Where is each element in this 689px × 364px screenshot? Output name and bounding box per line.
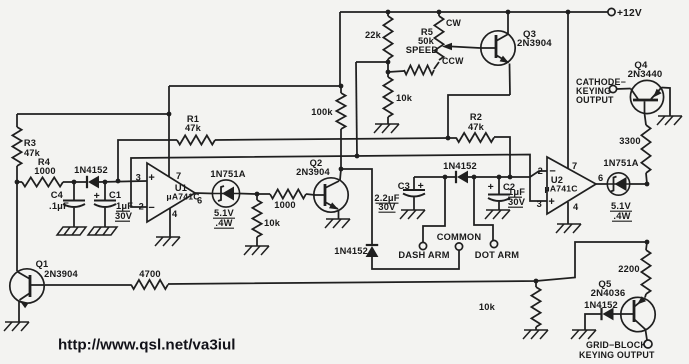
svg-text:1N4152: 1N4152 — [443, 161, 477, 171]
svg-text:4: 4 — [573, 202, 579, 212]
arrow Q1 emitter — [20, 301, 29, 309]
svg-text:μA741C: μA741C — [544, 184, 577, 194]
svg-text:22k: 22k — [365, 30, 382, 40]
svg-text:2N3904: 2N3904 — [296, 167, 330, 177]
wire 10k-v top lead — [387, 72, 389, 77]
wire C2 bottom lead — [498, 202, 500, 210]
wire R2 right lead — [494, 137, 510, 177]
svg-text:10k: 10k — [264, 218, 281, 228]
wire Q3 emitter path — [509, 64, 512, 96]
resistor R2 — [456, 133, 494, 142]
svg-text:.4W: .4W — [613, 211, 630, 221]
capacitor C3 — [403, 190, 425, 197]
wire drop to feedback — [356, 62, 357, 156]
capacitor C4 — [63, 201, 85, 208]
wire 22k top lead — [387, 12, 389, 16]
wire dot-arm bracket — [474, 177, 493, 241]
arrow R5 wiper — [442, 43, 452, 50]
transistor Q3 2N3904 body — [481, 31, 515, 65]
svg-text:C4: C4 — [51, 190, 64, 200]
wire +12V rail left drop to 100k — [339, 12, 341, 86]
svg-text:+12V: +12V — [617, 8, 642, 19]
resistor 2200 — [641, 250, 650, 294]
wire Q5 emitter inside — [634, 298, 645, 307]
svg-text:CW: CW — [446, 18, 462, 28]
wire Q1 collector inside — [17, 272, 30, 280]
diode D3 1N4152 — [456, 171, 468, 184]
svg-text:Q1: Q1 — [36, 259, 49, 269]
svg-text:DASH ARM: DASH ARM — [398, 250, 449, 260]
svg-text:−: − — [148, 202, 155, 214]
svg-text:30V: 30V — [378, 202, 396, 212]
wire Q2 collector to D4 — [341, 169, 372, 244]
resistor 22k — [383, 16, 392, 59]
wire 22k to 10k node — [387, 62, 389, 72]
svg-text:6: 6 — [197, 196, 202, 206]
wire diode row right — [468, 171, 547, 177]
wire zener2 to node — [630, 183, 647, 185]
arrow Q3 emitter — [500, 56, 509, 63]
wire Q5 collector out — [646, 330, 648, 340]
ground C1 — [88, 227, 117, 235]
wire R2 left lead — [448, 137, 456, 139]
svg-text:KEYING OUTPUT: KEYING OUTPUT — [579, 350, 655, 360]
node 100k top — [339, 84, 344, 89]
node C4 junction — [72, 180, 77, 185]
wire Q3 emitter to R2 node — [448, 95, 510, 138]
wire 2200 bottom lead — [645, 294, 646, 298]
transistor Q4 base bar — [633, 99, 658, 102]
wire Q4 collector inside — [644, 101, 646, 113]
node C2 junction — [497, 175, 502, 180]
svg-text:R2: R2 — [470, 112, 482, 122]
svg-text:2: 2 — [538, 166, 543, 176]
svg-text:2N3440: 2N3440 — [628, 69, 663, 80]
wire C2 top lead — [498, 177, 500, 194]
node U2 pin7 rail — [566, 10, 571, 15]
wire +12V top rail — [340, 11, 608, 13]
wire R1 left corner — [118, 140, 177, 181]
svg-text:+: + — [488, 181, 494, 193]
wire 100k bottom lead — [340, 129, 342, 169]
wire Q4 emitter to ground — [662, 88, 671, 117]
ground 10k-a — [244, 246, 269, 255]
wire Q4 base inside — [631, 89, 638, 100]
wire U1 pin7 riser — [168, 86, 170, 177]
node 22k top — [386, 10, 391, 15]
wire common drop — [372, 250, 459, 269]
ground 10k-v — [374, 124, 399, 133]
resistor R3 — [12, 127, 21, 166]
wire 22k bottom — [387, 59, 389, 62]
node 22k bottom — [386, 60, 391, 65]
wire Q4 collector down — [645, 114, 647, 126]
svg-text:30V: 30V — [508, 197, 526, 207]
transistor Q2 2N3904 body — [314, 178, 348, 212]
node C1 junction — [103, 180, 108, 185]
ground U1 pin4 — [155, 237, 180, 246]
ground 10k-c — [523, 330, 548, 339]
wire R3 lead top — [16, 114, 18, 127]
node R1/R2/Q3 — [446, 136, 451, 141]
zener D5 1N751A — [607, 173, 629, 195]
ground Q4 — [657, 116, 682, 125]
wire Q1 collector riser — [16, 182, 18, 271]
wire Q2 collector up — [340, 169, 341, 180]
wire C3 top lead — [413, 177, 415, 190]
svg-text:+: + — [94, 190, 100, 202]
ground U2 pin4 — [556, 224, 581, 233]
wire bottom rail long — [168, 242, 647, 284]
resistor 4700 — [131, 280, 168, 289]
transistor Q5 base bar — [633, 300, 636, 322]
svg-text:4: 4 — [172, 209, 178, 219]
svg-text:SPEED: SPEED — [406, 45, 439, 55]
svg-text:C3: C3 — [398, 181, 410, 191]
svg-text:1000: 1000 — [34, 166, 55, 176]
wire 22k bottom to drop — [356, 61, 388, 63]
ground Q1 — [4, 322, 29, 331]
svg-text:1N751A: 1N751A — [603, 158, 638, 168]
wire C4 top lead — [73, 182, 75, 200]
node pin7 column / R3 rail — [167, 112, 172, 117]
ground C3 — [400, 210, 425, 219]
wire 10k-a bottom — [256, 237, 258, 246]
wire U2 out — [596, 183, 607, 185]
capacitor C1 — [94, 201, 116, 208]
node dash-arm drop — [443, 175, 448, 180]
wire C1 bottom lead — [104, 208, 106, 227]
op-amp U1 body — [147, 163, 195, 222]
node R1 junction — [116, 179, 121, 184]
zener D2 1N751A — [212, 180, 239, 207]
node R5 top — [437, 10, 442, 15]
resistor R5 50k — [434, 16, 443, 60]
wire C1 top lead — [104, 182, 106, 200]
resistor 10k-v — [383, 77, 392, 117]
svg-text:100k: 100k — [311, 107, 333, 117]
wire 100k top lead — [340, 86, 342, 93]
wire R5 top lead — [438, 12, 440, 16]
transistor Q3 base bar — [495, 35, 498, 58]
op-amp U2 body — [547, 157, 596, 214]
node R2 drop — [508, 175, 513, 180]
resistor 10k-c — [531, 287, 540, 327]
terminal +12V — [608, 8, 615, 15]
ground C2 — [485, 210, 510, 219]
wire U1 pin2 loop to U2 pin3 — [131, 155, 547, 208]
svg-text:7: 7 — [572, 161, 577, 171]
wire Q3 emitter inside — [496, 55, 509, 63]
wire R4 left lead — [17, 181, 22, 183]
svg-text:3: 3 — [537, 199, 542, 209]
resistor 10k-a — [252, 200, 261, 237]
svg-text:3300: 3300 — [619, 136, 640, 146]
svg-text:47k: 47k — [185, 123, 202, 133]
svg-text:+: + — [548, 196, 555, 208]
resistor R1 — [177, 135, 215, 144]
terminal DOT ARM — [490, 240, 497, 247]
node zener2/3300 — [645, 182, 650, 187]
wire 10k-c top lead — [535, 281, 537, 287]
svg-text:1μF: 1μF — [508, 187, 525, 197]
wire 10k-c bottom — [535, 327, 537, 330]
svg-text:10k: 10k — [396, 93, 413, 103]
wire R4 to diode — [63, 181, 87, 183]
wire dash-arm bracket — [423, 177, 445, 243]
wire Q1 emitter down — [18, 301, 20, 322]
wire diode to U1 pin3 — [99, 181, 147, 182]
terminal DASH ARM — [419, 242, 426, 249]
wire Q5 base inside — [621, 313, 634, 315]
svg-text:2N3904: 2N3904 — [44, 269, 78, 279]
resistor 1000 Q2 base — [270, 189, 306, 198]
ground Q2 — [325, 219, 350, 228]
svg-text:7: 7 — [176, 171, 181, 181]
svg-text:http://www.qsl.net/va3iul: http://www.qsl.net/va3iul — [58, 337, 235, 354]
svg-text:COMMON: COMMON — [437, 232, 482, 242]
wire D6 to ground — [585, 314, 602, 330]
wire 10k-a top lead — [256, 194, 258, 200]
transistor Q1 base bar — [29, 275, 32, 297]
node 22k bottom drop — [355, 154, 360, 159]
svg-text:2N3904: 2N3904 — [517, 38, 552, 49]
wire R3 bottom lead — [16, 166, 18, 182]
wire Q2 collector inside — [325, 181, 339, 188]
resistor 100k — [336, 93, 345, 129]
diode D1 1N4152 — [87, 176, 99, 189]
wire 10k-b left lead — [388, 71, 404, 72]
svg-text:+: + — [418, 180, 424, 192]
ground C4 — [57, 227, 86, 235]
ground Q5 diode — [571, 330, 596, 339]
wire 10k-b to R5 — [434, 62, 439, 69]
resistor 3300 — [641, 125, 650, 173]
wire C4 bottom lead — [73, 208, 75, 227]
svg-text:10k: 10k — [479, 302, 496, 312]
wire U2 pin4 — [567, 202, 569, 224]
wire bottom rail — [45, 284, 131, 286]
svg-text:1000: 1000 — [274, 200, 295, 210]
wire Q3 collector up — [507, 12, 509, 34]
svg-text:CCW: CCW — [442, 56, 464, 66]
wire R1 to R2 node — [215, 138, 448, 140]
terminal CATHODE KEYING — [609, 85, 616, 92]
diode D6 1N4152 — [602, 308, 614, 321]
svg-text:47k: 47k — [468, 122, 485, 132]
wire Q5 base to diode — [614, 313, 621, 315]
arrow Q2 emitter — [329, 202, 339, 209]
resistor 10k-b horizontal — [404, 65, 434, 74]
svg-text:C1: C1 — [109, 190, 121, 200]
node Q3 collector top — [506, 10, 511, 15]
wire Q4 emitter inside — [651, 88, 662, 100]
wire R5 wiper to Q3 base — [452, 47, 480, 49]
wire Q2 emitter down — [338, 210, 340, 219]
svg-text:2200: 2200 — [618, 264, 639, 274]
wire C3 corner to diode row — [414, 176, 455, 178]
resistor R4 — [22, 177, 63, 186]
wire mid rail y86 — [169, 85, 341, 87]
wire zener to node — [240, 193, 257, 196]
node zener/10k/1000 — [255, 192, 260, 197]
wire Q2 base inside — [315, 194, 326, 196]
capacitor C2 — [488, 195, 510, 202]
wire R3 top corner — [17, 113, 169, 115]
svg-text:30V: 30V — [115, 211, 133, 221]
wire Q3 base inside — [481, 47, 497, 49]
terminal GRID-BLOCK — [644, 340, 652, 348]
wire 10k-v bottom — [387, 117, 389, 124]
terminal COMMON — [455, 243, 462, 250]
node 2200 top — [645, 240, 650, 245]
node dot-arm drop — [472, 175, 477, 180]
svg-text:5.1V: 5.1V — [611, 201, 632, 211]
svg-text:GRID−BLOCK: GRID−BLOCK — [586, 340, 647, 350]
svg-text:μA741C: μA741C — [166, 192, 199, 202]
wire U1 out — [195, 192, 213, 195]
transistor Q2 base bar — [324, 184, 327, 206]
wire 1000 leads — [257, 193, 270, 195]
wire 3300 bottom lead — [646, 173, 647, 184]
wire Q4 base lead — [617, 88, 631, 91]
arrow Q5 emitter — [637, 296, 646, 304]
svg-text:1N751A: 1N751A — [210, 169, 245, 179]
diode D4 1N4152 — [366, 245, 379, 257]
wire 2200 top lead — [646, 242, 647, 250]
svg-text:.1μF: .1μF — [49, 201, 69, 211]
node A R3/R4/Q1 — [15, 180, 20, 185]
arrow Q4 emitter — [653, 89, 662, 98]
wire Q5 collector inside — [634, 319, 646, 330]
svg-text:2N4036: 2N4036 — [591, 288, 626, 299]
wire C3 bottom lead — [413, 198, 415, 211]
wire Q3 collector inside — [496, 35, 508, 42]
svg-text:.4W: .4W — [215, 218, 232, 228]
transistor Q1 2N3904 body — [10, 269, 44, 303]
node 10k pair — [386, 70, 391, 75]
wire Q2 emitter inside — [325, 202, 338, 209]
svg-text:3: 3 — [136, 173, 141, 183]
wire U2 pin7 riser — [567, 12, 569, 168]
svg-text:+: + — [148, 172, 155, 184]
transistor Q4 2N3440 body — [630, 80, 663, 113]
wire 1000 to Q2 — [306, 194, 315, 195]
svg-text:OUTPUT: OUTPUT — [576, 95, 614, 105]
node 10k-c top — [534, 279, 539, 284]
node Q2 collector — [339, 167, 344, 172]
wire U1 pin4 — [169, 208, 171, 237]
svg-text:DOT ARM: DOT ARM — [475, 250, 519, 260]
svg-text:4700: 4700 — [139, 269, 160, 279]
svg-text:6: 6 — [598, 173, 603, 183]
svg-text:1N4152: 1N4152 — [584, 300, 618, 310]
transistor Q5 2N4036 body — [621, 297, 655, 331]
svg-text:1N4152: 1N4152 — [334, 246, 368, 256]
svg-text:R3: R3 — [24, 138, 36, 148]
wire Q1 emitter inside — [20, 293, 31, 300]
wire Q1 base inside — [30, 284, 44, 286]
svg-text:5.1V: 5.1V — [214, 208, 235, 218]
svg-text:1N4152: 1N4152 — [74, 165, 108, 175]
